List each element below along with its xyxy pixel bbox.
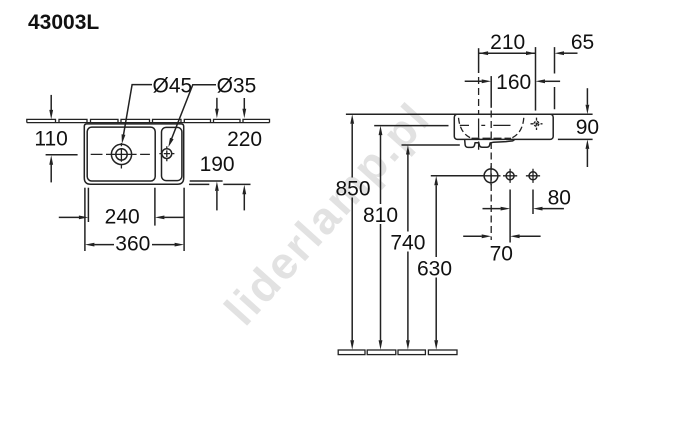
svg-text:70: 70 <box>490 243 513 266</box>
interior dashed left bowl wall <box>459 118 472 139</box>
svg-text:240: 240 <box>105 205 140 228</box>
extension line right edge <box>554 47 556 109</box>
810 level line <box>374 125 448 127</box>
svg-text:210: 210 <box>490 31 525 54</box>
630 level line <box>431 175 484 177</box>
svg-text:850: 850 <box>335 177 370 200</box>
fixing hole dashed line <box>478 77 480 150</box>
basin outer outline (top view) <box>84 124 183 184</box>
svg-text:220: 220 <box>227 128 262 151</box>
extension line left fixing <box>478 48 480 73</box>
740 level line <box>402 144 460 146</box>
tap hole crosshair <box>159 146 174 161</box>
tap deck inner outline (top view) <box>162 127 182 180</box>
svg-text:630: 630 <box>417 257 452 280</box>
svg-text:740: 740 <box>390 231 425 254</box>
drain hole inner circle <box>116 149 127 160</box>
drain hole outer circle <box>111 144 131 164</box>
svg-text:360: 360 <box>115 233 150 256</box>
extension below fixing hole left <box>509 190 511 243</box>
svg-text:43003L: 43003L <box>28 11 99 34</box>
tap hole circle <box>162 149 172 159</box>
svg-text:Ø35: Ø35 <box>217 74 257 97</box>
extension lines right of basin <box>190 180 223 182</box>
centreline vertical <box>490 76 492 108</box>
extension lines below basin <box>84 188 86 251</box>
floor tiles <box>338 350 457 355</box>
svg-text:Ø45: Ø45 <box>153 74 193 97</box>
wall (tiled) top view <box>27 119 270 122</box>
drain trap outline <box>465 140 515 148</box>
svg-text:110: 110 <box>34 127 67 150</box>
drain crosshair horizontal <box>91 153 150 155</box>
extension below fixing hole right <box>532 190 534 215</box>
fixing hole right front view <box>529 172 537 180</box>
basin body front view <box>454 114 553 139</box>
leader to drain <box>123 85 152 136</box>
extension line tap <box>535 47 537 111</box>
drain outlet hole front view <box>484 169 498 183</box>
tap hole symbol front view <box>534 121 539 126</box>
svg-text:810: 810 <box>363 204 398 227</box>
fixing hole left front view <box>506 172 514 180</box>
basin inner bowl (top view) <box>87 127 155 181</box>
svg-text:90: 90 <box>576 116 599 139</box>
wall reference line (850 level / basin top) <box>346 113 593 115</box>
svg-text:80: 80 <box>548 187 571 210</box>
svg-text:65: 65 <box>571 31 594 54</box>
interior dashed rim line <box>460 124 511 126</box>
svg-text:160: 160 <box>496 71 531 94</box>
interior dashed right bowl wall <box>511 118 524 139</box>
leader to tap hole <box>171 85 217 142</box>
interior dashed bowl bottom <box>472 137 512 139</box>
drain centre dot <box>120 153 122 155</box>
drain crosshair vertical <box>120 143 122 169</box>
svg-text:190: 190 <box>200 153 235 176</box>
